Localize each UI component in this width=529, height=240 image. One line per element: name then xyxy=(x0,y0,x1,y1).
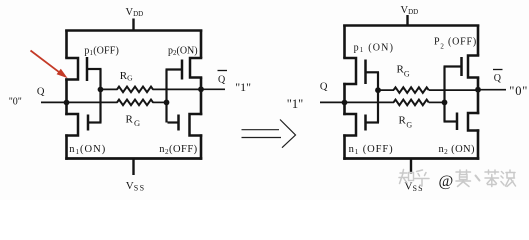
svg-text:p2(ON): p2(ON) xyxy=(168,46,198,58)
wire: left rail upper segment (node Q side) xyxy=(65,30,68,59)
svg-text:"1": "1" xyxy=(235,80,251,94)
junction node: Qbar-to-gates on top wire xyxy=(98,87,104,93)
transistor p2 (PMOS, left cell) xyxy=(166,57,203,80)
VDD stub (right cell) xyxy=(406,15,408,27)
transistor n1 (NMOS, left cell) xyxy=(65,113,101,137)
transistor p1 (PMOS, left cell) xyxy=(65,57,101,81)
junction node: bottom wire at left rail (right cell) xyxy=(342,100,348,106)
wire: right rail upper segment (node Qbar side) xyxy=(200,30,203,59)
svg-text:n1(ON): n1(ON) xyxy=(69,144,106,156)
wire: left rail middle segment (right cell) xyxy=(343,83,346,115)
wire: gate cross-coupling vertical (p1/n1 gates, right cell) xyxy=(377,72,379,122)
wire: right rail lower segment xyxy=(200,134,203,160)
svg-text:@: @ xyxy=(439,173,454,190)
svg-text:"0": "0" xyxy=(9,97,22,108)
wire: right rail middle segment (right cell) xyxy=(477,78,480,115)
svg-text:Q: Q xyxy=(320,82,328,93)
wire: left rail upper segment (right cell) xyxy=(343,25,346,59)
junction node: Q-to-gates on bottom wire xyxy=(164,100,170,106)
wire: Qbar output terminal (left cell) xyxy=(201,88,225,90)
svg-text:"1": "1" xyxy=(287,97,303,111)
bottom rail VSS (left cell) xyxy=(65,157,202,160)
junction node: gates vertical on bottom wire (right cell) xyxy=(442,100,448,106)
resistor RG top (right cell) xyxy=(377,87,480,93)
junction node: top wire at right rail (right cell) xyxy=(475,87,481,93)
wire: right rail lower segment (right cell) xyxy=(477,129,480,160)
double-line implication arrow between cells xyxy=(242,120,296,148)
resistor RG bottom (right cell) xyxy=(320,100,445,106)
transistor n2 (NMOS, left cell) xyxy=(168,113,203,137)
red annotation arrow pointing at p1 xyxy=(31,51,67,78)
glyph ben xyxy=(485,170,499,187)
glyph zhi xyxy=(399,170,414,184)
top rail (right cell) xyxy=(343,24,479,27)
wire: left rail middle segment xyxy=(65,78,68,115)
svg-text:Q: Q xyxy=(494,73,502,84)
resistor RG bottom (left cell) xyxy=(41,100,166,106)
glyph mo xyxy=(456,170,471,187)
svg-text:p1 (ON): p1 (ON) xyxy=(354,43,395,55)
wire: gate cross-coupling vertical (p1/n1 gates) xyxy=(99,69,101,123)
wire: left rail lower segment xyxy=(65,134,68,160)
svg-text:Q: Q xyxy=(37,87,45,98)
wire: left rail lower segment (right cell) xyxy=(343,134,346,160)
glyph dun comma xyxy=(476,176,480,181)
junction node: bottom wire at left rail (Q) xyxy=(64,100,70,106)
VSS stub (right cell) xyxy=(410,158,412,174)
bottom rail VSS (right cell) xyxy=(343,157,479,160)
resistor RG top (left cell) xyxy=(99,87,202,93)
VDD stub (left cell) xyxy=(132,19,134,32)
transistor p1 (PMOS, right cell) xyxy=(343,57,379,85)
wire: Qbar output terminal (right cell) xyxy=(478,89,506,91)
svg-text:n2 (ON): n2 (ON) xyxy=(439,144,476,156)
transistor p2 (PMOS, right cell) xyxy=(444,54,480,78)
transistor n1 (NMOS, right cell) xyxy=(343,113,379,137)
svg-text:Q: Q xyxy=(218,75,226,86)
glyph bo xyxy=(501,170,516,187)
top rail (left cell) xyxy=(65,29,202,32)
svg-text:"0": "0" xyxy=(509,84,528,98)
glyph hu xyxy=(415,170,430,186)
junction node: top wire at right rail (Qbar) xyxy=(198,86,204,92)
junction node: gates vertical on top wire (right cell) xyxy=(375,87,381,93)
transistor n2 (NMOS, right cell) xyxy=(444,112,480,132)
wire: gate cross-coupling vertical (p2/n2 gates, right cell) xyxy=(443,67,445,122)
wire: right rail middle segment xyxy=(200,78,203,116)
wire: gate cross-coupling vertical (p2/n2 gates) xyxy=(165,70,167,123)
watermark: gray Zhihu text xyxy=(399,170,516,191)
VSS stub (left cell) xyxy=(132,158,134,175)
wire: right rail upper segment (right cell) xyxy=(477,25,480,56)
